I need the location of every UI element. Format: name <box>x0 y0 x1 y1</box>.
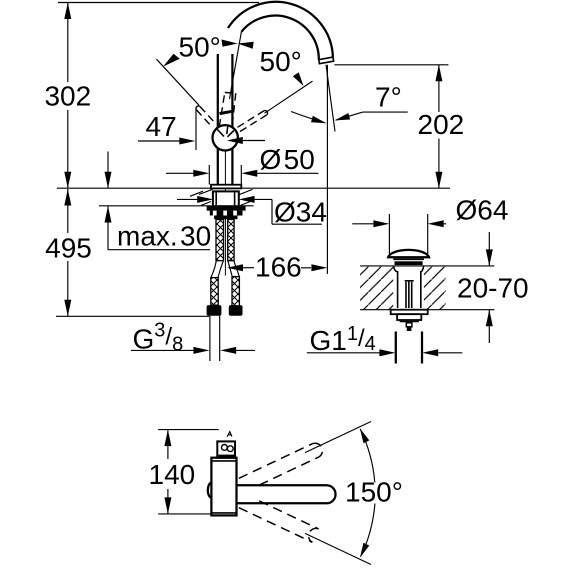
arrowhead up-left lever <box>163 54 180 67</box>
countertop hatched section <box>360 266 393 309</box>
svg-text:202: 202 <box>418 109 465 140</box>
dashed handle capsule lower <box>239 501 319 542</box>
braided hose lower right <box>232 277 239 307</box>
top extension line <box>58 2 259 4</box>
deck bottom line <box>99 205 254 207</box>
svg-text:50°: 50° <box>179 31 221 62</box>
166 dimension <box>227 264 243 271</box>
47 dimension <box>195 107 197 150</box>
bowtie arrows at lever centerline <box>222 40 238 47</box>
arrow down bottom 495 <box>64 300 71 317</box>
spout inner arc <box>241 16 318 60</box>
lever up-right dashed <box>240 115 266 131</box>
G3/8 dimension <box>131 349 194 351</box>
arrowhead up-right <box>293 72 304 86</box>
Ø34 arrows <box>177 198 198 200</box>
escutcheon base plate <box>211 185 241 189</box>
lever up-left dashed <box>200 107 216 125</box>
drain tail pipe <box>395 332 397 364</box>
drain body walls <box>394 266 398 308</box>
hose end cap left <box>207 305 222 316</box>
140 dimension <box>167 430 169 459</box>
7deg arc with arrow <box>291 112 325 123</box>
deck lines <box>360 265 494 267</box>
svg-text:495: 495 <box>45 233 92 264</box>
cap rim <box>393 258 424 260</box>
deck top line <box>57 187 450 189</box>
arc arrowheads <box>360 428 369 443</box>
lever up position dashed outline <box>219 93 225 127</box>
deck hatch ticks <box>190 189 253 205</box>
spout outlet face <box>319 57 334 64</box>
hose end cap right <box>229 305 243 316</box>
handle capsule solid <box>219 485 336 503</box>
spout outer arc <box>228 2 333 57</box>
arrow up top 302 <box>64 3 71 20</box>
svg-text:Ø34: Ø34 <box>274 196 327 227</box>
lever up-position centerline (tilted) <box>230 32 242 99</box>
ball internals <box>217 126 234 137</box>
150 deg arc <box>360 429 375 483</box>
svg-text:47: 47 <box>146 111 177 142</box>
arrow up below deck 495 <box>64 189 71 206</box>
black nut below deck <box>207 206 246 210</box>
svg-text:140: 140 <box>149 459 196 490</box>
inner stem <box>405 282 407 308</box>
fan boundary line lower <box>305 533 371 564</box>
G1 1/4 dimension <box>307 352 380 354</box>
20-70 dimension <box>488 232 490 266</box>
hose bend thin lines <box>211 261 216 278</box>
lever up-left solid leader line <box>157 59 200 105</box>
faucet body pipe <box>217 54 219 185</box>
svg-text:Ø64: Ø64 <box>456 194 509 225</box>
G3/8 stud lines <box>209 316 211 361</box>
extension lines <box>158 429 219 431</box>
svg-text:150°: 150° <box>345 477 403 508</box>
braided hose lower left <box>211 278 218 306</box>
fan boundary line upper <box>305 422 371 453</box>
body left bulge <box>208 483 212 498</box>
202 dimension <box>334 64 448 66</box>
Ø50 dimension extension lines <box>208 165 210 185</box>
svg-text:7°: 7° <box>375 81 402 112</box>
svg-text:166: 166 <box>255 252 302 283</box>
outlet 7deg tilted line <box>326 65 335 132</box>
Ø64 extension lines <box>388 214 390 254</box>
knob on top <box>217 441 235 457</box>
connector block <box>214 216 237 220</box>
dimension 302/495 vertical line <box>67 3 69 83</box>
svg-text:max. 30: max. 30 <box>117 221 211 252</box>
svg-text:Ø 50: Ø 50 <box>260 144 315 175</box>
body rectangle <box>211 458 236 516</box>
locknut below deck <box>391 310 428 315</box>
arrow down deck 302 <box>64 172 71 189</box>
7deg leader <box>363 111 408 113</box>
Ø64 arrows <box>352 223 373 225</box>
centerline <box>224 140 226 276</box>
braided hose upper right <box>228 220 234 261</box>
pop-up cap dome <box>388 250 429 257</box>
lever up-right solid leader <box>265 81 313 113</box>
svg-text:20-70: 20-70 <box>457 273 529 304</box>
bottom extension line (hose end) <box>56 315 209 317</box>
tiny glyph above knob <box>227 432 232 437</box>
dashed handle capsule upper <box>239 443 323 485</box>
max.30 dimension <box>107 152 109 189</box>
ball joint <box>213 125 238 150</box>
svg-text:302: 302 <box>44 81 91 112</box>
slotted locknut <box>210 211 243 216</box>
braided hose upper left <box>216 220 224 261</box>
mounting shank <box>213 191 239 206</box>
outlet vertical reference line <box>326 65 328 274</box>
lever collar solid tick <box>220 111 233 113</box>
svg-text:50°: 50° <box>260 46 302 77</box>
